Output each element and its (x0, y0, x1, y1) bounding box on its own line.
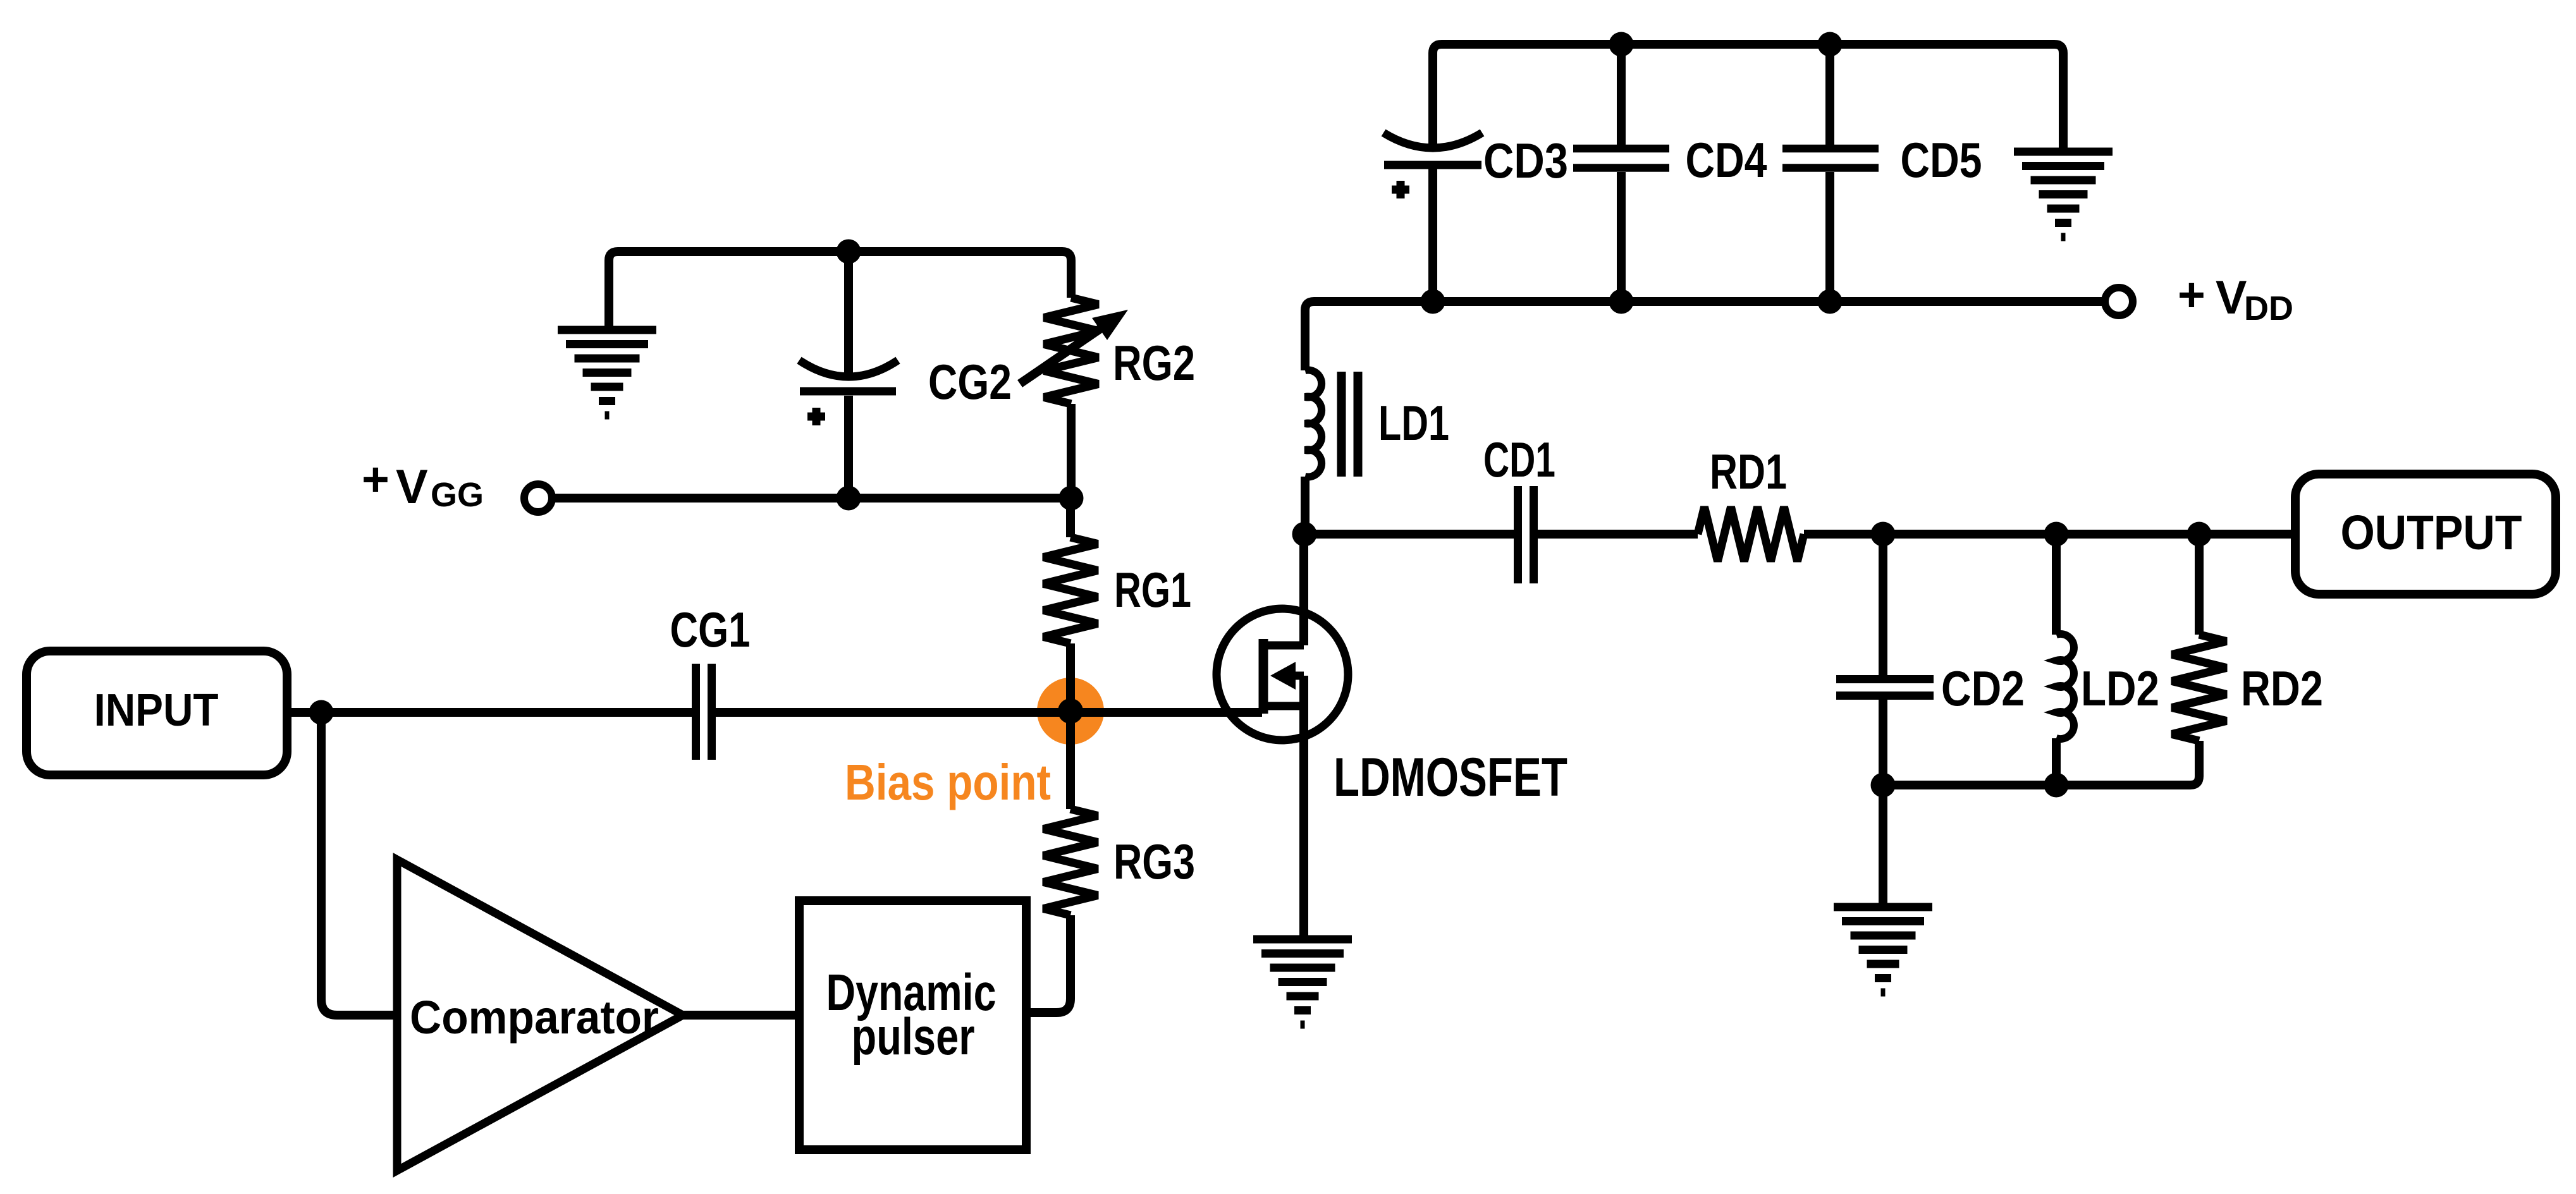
svg-text:+: + (362, 453, 389, 506)
svg-text:V: V (2216, 271, 2247, 324)
svg-text:CD2: CD2 (1941, 661, 2025, 716)
svg-text:Bias point: Bias point (845, 754, 1051, 810)
svg-text:Comparator: Comparator (410, 991, 659, 1044)
svg-text:LDMOSFET: LDMOSFET (1334, 747, 1567, 808)
svg-text:RD1: RD1 (1710, 444, 1787, 499)
svg-text:OUTPUT: OUTPUT (2341, 506, 2522, 560)
svg-text:RD2: RD2 (2241, 661, 2323, 716)
svg-text:RG2: RG2 (1113, 335, 1195, 391)
svg-text:INPUT: INPUT (94, 685, 219, 736)
svg-text:CD1: CD1 (1483, 432, 1555, 487)
svg-text:CG1: CG1 (670, 602, 751, 657)
svg-text:RG1: RG1 (1114, 562, 1191, 618)
svg-text:CD5: CD5 (1901, 132, 1982, 188)
svg-text:V: V (396, 460, 428, 514)
svg-text:CD4: CD4 (1686, 132, 1767, 188)
svg-text:LD1: LD1 (1378, 395, 1449, 451)
svg-text:GG: GG (431, 476, 484, 514)
svg-text:pulser: pulser (852, 1008, 975, 1066)
svg-text:CD3: CD3 (1483, 133, 1568, 188)
svg-text:RG3: RG3 (1113, 834, 1195, 889)
svg-text:LD2: LD2 (2081, 661, 2159, 716)
svg-text:DD: DD (2244, 289, 2293, 327)
svg-text:+: + (2178, 268, 2205, 321)
svg-text:CG2: CG2 (928, 354, 1012, 410)
